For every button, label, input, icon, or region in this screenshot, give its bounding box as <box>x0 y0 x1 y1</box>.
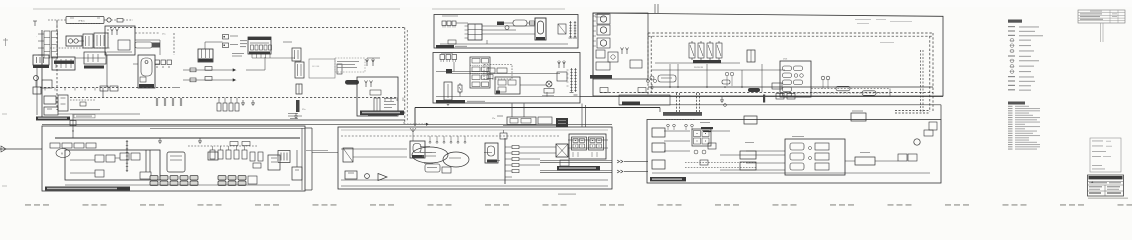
big oval component 1 <box>412 147 448 163</box>
double dashed border right 2 <box>929 36 931 112</box>
block5 label strip <box>436 45 454 49</box>
bottom ruler dashes <box>25 204 31 206</box>
block3 left wire2 <box>353 156 407 158</box>
big oval component 2 <box>443 152 469 167</box>
block4 box right 1 <box>855 157 875 165</box>
resistor R3 <box>205 67 212 71</box>
block6 dark comp on wire <box>446 69 452 74</box>
block3 inner texts <box>420 145 430 148</box>
inter wire <box>312 152 338 154</box>
cluster row 2 circles <box>794 74 798 78</box>
main fuse box FB1 <box>105 26 135 55</box>
sub comp c <box>596 62 610 70</box>
cluster dashes <box>50 47 110 49</box>
wire w4 <box>135 39 160 41</box>
svg-text:M: M <box>61 153 63 156</box>
sheet top edge line <box>33 8 400 10</box>
box B text <box>384 98 396 99</box>
block3 top-left label <box>360 111 404 116</box>
block5 grid box <box>468 24 482 40</box>
block3 photo sensor <box>343 148 353 162</box>
rounded comp left <box>135 42 152 48</box>
block1 dashed border left <box>56 21 58 110</box>
abbrev row 15 <box>1008 137 1013 138</box>
block7 sub label <box>590 75 612 79</box>
block1 solid left border <box>41 30 43 120</box>
fuse dot pair <box>223 35 229 40</box>
block5 grid pins <box>465 25 469 27</box>
block4 small comp on dash <box>700 160 708 165</box>
small rect pair mid <box>100 86 108 91</box>
rail rounded comp <box>658 75 676 82</box>
connector pair 1 <box>617 160 620 163</box>
ladder B double dashed band <box>895 110 930 112</box>
vertical to top edge <box>654 4 656 13</box>
connector strip row C <box>218 176 226 181</box>
motor M2 <box>597 14 610 24</box>
U3 pin wires <box>251 54 253 58</box>
bus dark bar <box>763 95 765 103</box>
svg-text:OF ACC: OF ACC <box>78 19 86 22</box>
block4 dashed rows <box>685 162 757 164</box>
ladder down 1 wire a <box>676 93 678 112</box>
bus gnd <box>651 84 653 87</box>
rail comp small right <box>772 83 782 89</box>
block6 main wire 2 <box>452 73 560 75</box>
legend symbol row 7 <box>1008 55 1015 56</box>
abbrev row 4 <box>1008 113 1013 114</box>
pin group P2 <box>164 98 166 106</box>
small comp right of mode <box>442 167 451 173</box>
abbrev row 11 <box>1008 128 1013 129</box>
block1 dashed border right <box>404 28 406 123</box>
block1 dashed border top <box>110 27 405 29</box>
block4 left column box c <box>652 160 665 169</box>
dashed bus mid <box>40 87 172 89</box>
control unit box <box>167 152 185 172</box>
mode box <box>425 164 440 172</box>
left margin mark 1 <box>3 39 8 41</box>
block1 label strip <box>36 117 70 121</box>
bus branches <box>505 146 512 148</box>
block6 wire to circle <box>520 84 546 86</box>
abbrev row 2 <box>1008 108 1013 109</box>
double dashed border top line2 <box>648 35 933 37</box>
title block outer <box>1088 175 1124 196</box>
abbrev row 10 <box>1008 126 1013 127</box>
block3 left wire <box>341 148 407 150</box>
heavy wire from block1 right <box>415 107 660 109</box>
block2 right double line <box>311 128 313 190</box>
abbrev row 8 <box>1008 122 1013 123</box>
wiper ECU box <box>65 150 160 180</box>
left edge arrow <box>1 146 6 152</box>
right small box K7 <box>292 167 302 180</box>
left vertical wire <box>36 68 38 115</box>
abbrev row 20 <box>1008 149 1013 150</box>
legend symbol row 5 <box>1010 44 1014 48</box>
notes text rows <box>1092 140 1103 143</box>
block3 bottom wires <box>341 179 608 181</box>
ladder down 2 wire b <box>699 93 701 112</box>
bus circle small <box>724 104 727 107</box>
block6 pin bar 1 <box>571 68 573 92</box>
solid bus above dashed <box>648 86 933 88</box>
sensor row <box>212 146 214 150</box>
block3 label strip <box>557 166 600 170</box>
block1 sub label <box>74 115 95 118</box>
left connector stack CN1 <box>44 31 50 58</box>
ECU inner wires <box>70 159 95 161</box>
double dashed border left 1 <box>647 33 649 95</box>
wire w5 <box>172 87 180 89</box>
legend symbol row 3 <box>1008 35 1015 36</box>
abbrev row 7 <box>1008 119 1013 120</box>
flasher box <box>33 87 41 94</box>
legend symbol row 4 <box>1010 38 1014 42</box>
small box on rail <box>747 50 755 62</box>
title block mark <box>1091 181 1094 183</box>
fuse row hanging <box>218 98 220 104</box>
dashed option line <box>188 145 257 147</box>
svg-text:2Ω 2Ω 2Ω: 2Ω 2Ω 2Ω <box>694 67 703 69</box>
ladder A band <box>663 112 702 116</box>
bottom faint marks 2 <box>558 194 576 195</box>
ladder A connector row <box>666 119 695 121</box>
glow plug fuse 1 <box>689 43 695 58</box>
left lower cluster b <box>44 107 58 115</box>
Y pins pair <box>366 62 368 66</box>
bus hanging ticks <box>44 88 46 91</box>
block5 small comp right <box>558 24 566 34</box>
abbrev row 1 <box>1008 106 1013 107</box>
bus box <box>42 80 52 88</box>
mid connector box 2 <box>538 117 552 124</box>
bus dashed upper <box>811 88 890 90</box>
bottom sub box <box>619 95 670 105</box>
sub pins d <box>621 50 623 54</box>
inner box right A <box>309 59 335 78</box>
cluster row 4 coil <box>783 87 792 92</box>
revision table stem lines <box>1100 23 1102 42</box>
abbrev row 16 <box>1008 140 1013 141</box>
block4 box right 2 <box>898 154 907 161</box>
ground G1 <box>242 100 244 103</box>
wires to right <box>519 146 556 148</box>
wire w6 <box>283 41 292 43</box>
relay cluster box7 <box>780 61 811 97</box>
legend symbol row 6 <box>1010 49 1014 53</box>
component K2 <box>337 64 342 74</box>
resistor R5 <box>205 77 212 81</box>
block6 gnd left <box>447 100 449 103</box>
block6 outline <box>433 53 580 104</box>
block6 bottom wire <box>436 96 580 98</box>
left margin mark 3 <box>2 185 7 187</box>
block6 dashed module <box>484 65 512 80</box>
margin T mark <box>33 20 37 22</box>
sensor pair circles <box>725 72 729 76</box>
abbrev row 6 <box>1008 117 1013 118</box>
glow plug fuse 3 <box>707 43 713 58</box>
block5 top text <box>442 16 458 17</box>
relay grid box right <box>569 134 606 159</box>
block4 top box 3 <box>744 116 757 124</box>
block7 corner text <box>595 14 609 15</box>
block6 main wire <box>436 71 490 73</box>
block3 amp triangle <box>378 174 387 181</box>
dashed option box <box>335 58 365 72</box>
condenser C2 <box>296 84 302 94</box>
revision table <box>1078 10 1125 23</box>
rail circle <box>650 76 654 80</box>
box B label strip <box>368 112 397 116</box>
ECU inner relay f <box>140 172 151 179</box>
motor M3 <box>597 25 610 35</box>
wire bus left of bus <box>106 55 108 88</box>
block4 bottom wire <box>652 172 930 174</box>
wire to block4 a <box>624 160 648 162</box>
title block text <box>1089 182 1107 183</box>
pin group P1 <box>156 98 158 106</box>
block6 fuse small <box>458 85 462 92</box>
block4 relay grid <box>692 129 711 146</box>
double dashed border right 1 <box>932 33 934 112</box>
glow plug fuse 4 <box>716 43 722 58</box>
wire dashed top row <box>48 19 66 21</box>
cluster side circles <box>821 76 825 80</box>
title block rows <box>1088 181 1124 183</box>
double dashed bottom 2 <box>600 92 933 94</box>
block3 left small box <box>345 171 357 179</box>
rail horizontal wire <box>655 62 740 64</box>
resistor network wires <box>183 69 228 71</box>
right vertical wire <box>296 150 298 167</box>
block4 box right 3 <box>908 154 917 161</box>
washer motor M1 <box>56 149 70 158</box>
block5 circle <box>505 26 509 30</box>
long bus below block7 line1 <box>580 96 943 98</box>
relay block R1b <box>33 55 49 65</box>
junction box J0 <box>94 33 108 48</box>
wire w7 <box>264 57 266 70</box>
cluster row 5 coil <box>783 93 792 97</box>
block4 mid box 1 <box>740 151 756 159</box>
grounds in block2 <box>159 138 161 141</box>
block6 junction cluster <box>470 57 490 88</box>
block7 left sub-block <box>593 13 648 79</box>
box B pins <box>365 83 367 87</box>
left entry wire <box>0 148 42 150</box>
block2 outline <box>42 126 305 191</box>
motor M4 <box>597 38 610 48</box>
sub pins column <box>593 15 596 17</box>
bus component 2 <box>862 91 876 96</box>
block6 left tall box <box>444 82 452 100</box>
block7 outer box <box>593 13 943 96</box>
resistor R4 <box>190 78 196 82</box>
relay K3 <box>292 48 301 61</box>
wire to block4 b <box>624 170 648 172</box>
legend symbols heading <box>1008 20 1022 23</box>
ECU inner relay a <box>95 155 104 162</box>
fusible link circles <box>68 39 72 43</box>
ECU inner relay e <box>95 170 104 177</box>
mid lower wire <box>503 125 560 127</box>
exit wires right upper <box>568 147 608 149</box>
U3 side text <box>240 40 247 41</box>
block6 small box below circle <box>544 89 554 94</box>
block3 fuse <box>500 133 507 139</box>
component box K5 <box>268 155 280 170</box>
ECU inner relay c <box>120 153 129 160</box>
vertical pair to block3 <box>581 104 583 128</box>
wire top inner <box>150 128 305 130</box>
legend symbol row 9 <box>1010 64 1014 68</box>
block5 connector units <box>442 21 446 26</box>
relay block R1c <box>84 52 106 64</box>
FB1 dots <box>107 29 108 30</box>
ground G2 <box>252 100 254 103</box>
connector strip row A <box>150 176 158 181</box>
block4 sub-box <box>785 139 845 175</box>
box B chain component <box>374 98 380 111</box>
relay grid pins <box>572 152 574 157</box>
abbrev row 12 <box>1008 131 1013 132</box>
legend symbol row 1 <box>1008 26 1015 27</box>
left connector pins <box>38 33 44 35</box>
block5 dark box <box>497 22 504 26</box>
block4 outline <box>647 120 941 184</box>
abbrev row 13 <box>1008 133 1013 134</box>
block3 circle <box>365 174 370 179</box>
dark bar component <box>296 100 300 112</box>
U2 wires <box>133 63 138 65</box>
hatched cable V1 <box>126 140 128 172</box>
connector pair 2 <box>617 170 620 173</box>
capacitor C1 <box>295 62 304 78</box>
connector strip row D <box>248 176 257 184</box>
block3 inner top line <box>341 129 608 131</box>
block4 small top right <box>929 122 937 130</box>
sub-box coil row 3 <box>790 163 804 170</box>
block6 right small box <box>557 72 567 81</box>
cable pair right <box>920 50 922 112</box>
block6 pin bar 2 <box>575 68 577 92</box>
block6 inner verticals <box>453 62 455 72</box>
dash row lower <box>70 99 95 101</box>
antenna symbol <box>412 128 414 141</box>
block2 extra vertical <box>301 128 303 190</box>
ECU inner relay b <box>106 155 115 162</box>
block6 connector units <box>440 55 445 60</box>
small box below speaker <box>560 160 569 166</box>
text cluster under bus <box>288 113 298 114</box>
block4 dark text <box>701 127 713 129</box>
exit double wire 2 <box>540 170 612 172</box>
svg-text:1723: 1723 <box>783 59 787 61</box>
double dashed border top line1 <box>648 32 933 34</box>
sub-box contact 2 <box>815 153 829 160</box>
abbrev row 19 <box>1008 146 1013 147</box>
legend symbol row 8 <box>1010 59 1014 63</box>
glow plug fuse 2 <box>698 43 704 58</box>
distributor unit U2 <box>138 55 155 88</box>
double dashed border left 2 <box>650 36 652 95</box>
rail verticals <box>669 64 671 87</box>
pin group P3 <box>172 98 174 106</box>
relay grid sub1 <box>572 137 587 150</box>
connector strip row B <box>150 181 158 186</box>
sub comp a <box>596 50 605 58</box>
legend symbol row 10 <box>1010 70 1014 74</box>
block3 tall unit <box>410 141 425 158</box>
block4 top circles <box>667 124 670 127</box>
vertical bus <box>504 138 506 184</box>
svg-text:NO USE: NO USE <box>312 66 320 68</box>
block4 inner wires <box>664 130 690 132</box>
block6 label strip <box>436 100 465 104</box>
wire dashed drop <box>56 20 58 34</box>
block5 bottom small box <box>448 40 456 44</box>
ignition switch SW1 <box>66 17 104 24</box>
block5 outline <box>434 15 578 49</box>
abbrev row 9 <box>1008 124 1013 125</box>
block5 wires <box>456 22 468 24</box>
connector row above motor <box>50 143 60 148</box>
diode box <box>58 95 68 111</box>
option boxes above <box>230 142 238 146</box>
U3 pins <box>251 45 254 50</box>
block2 bottom wires <box>65 184 290 186</box>
bus box pair <box>776 94 784 100</box>
sub comp e <box>630 60 642 68</box>
abbrev row 18 <box>1008 144 1013 145</box>
block2 main wire <box>55 137 300 139</box>
block1 bottom border <box>36 119 405 121</box>
block7 faint labels <box>855 18 871 21</box>
wire w2 <box>92 40 95 42</box>
block4 long wires <box>720 154 785 156</box>
block5 lamp unit <box>535 18 546 40</box>
block6 tick column <box>567 69 569 71</box>
cluster row 2 coil <box>783 73 792 78</box>
ladder down 2 wire a <box>696 93 698 112</box>
alternator regulator box U3 <box>248 37 271 54</box>
upper text row near bottom <box>70 109 100 110</box>
block4 center small box <box>708 143 716 149</box>
sub-box contact 3 <box>815 163 829 170</box>
rail small rounded <box>722 80 730 84</box>
block6 cross circle <box>546 81 552 87</box>
fuse squares row <box>155 60 160 65</box>
wire w1 <box>78 40 84 42</box>
legend symbol row 11 <box>1008 76 1015 77</box>
sub comp b <box>608 52 618 62</box>
block4 top box 4 <box>851 113 866 121</box>
mid dark cluster <box>556 118 568 127</box>
bus corner right <box>889 89 891 97</box>
block4 left column box a <box>652 128 665 137</box>
title block header band <box>1089 176 1123 179</box>
inner dashed boundary <box>135 32 160 34</box>
block4 circle right <box>914 139 920 145</box>
sub-box contact 1 <box>815 143 829 150</box>
cluster row 3 coil <box>783 80 792 85</box>
bus hanging gnd <box>721 97 723 100</box>
fuse bank label strip <box>693 60 721 63</box>
bus small comp b <box>638 88 646 93</box>
